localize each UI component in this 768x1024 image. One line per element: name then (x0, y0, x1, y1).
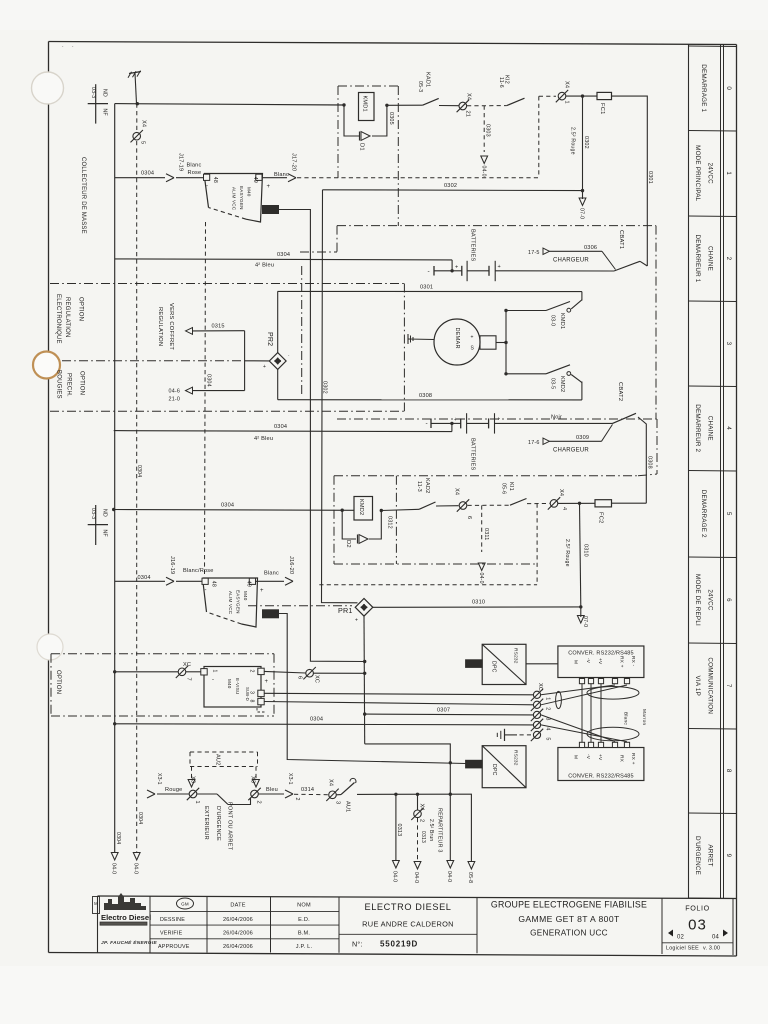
svg-text:NF: NF (102, 530, 108, 537)
svg-text:X3: X3 (250, 776, 256, 783)
svg-text:07-0: 07-0 (582, 616, 588, 627)
svg-text:26/04/2006: 26/04/2006 (223, 944, 253, 950)
svg-text:KAD1: KAD1 (425, 72, 431, 87)
svg-text:11-3: 11-3 (416, 481, 422, 492)
svg-text:CONVER. RS232/RS485: CONVER. RS232/RS485 (568, 774, 634, 780)
svg-text:D'URGENCE: D'URGENCE (215, 806, 221, 841)
wire to X3-1 (157, 793, 189, 795)
svg-text:2: 2 (725, 257, 732, 261)
relay coil KMD2 (354, 497, 373, 521)
arrow 04-0 dashed (133, 812, 144, 874)
svg-text:X4: X4 (328, 779, 334, 786)
wire dashed KI1 to X4-4 (527, 503, 550, 505)
contactor CBAT2 (613, 382, 653, 503)
svg-text:·: · (62, 44, 64, 50)
svg-text:ARRET: ARRET (707, 844, 714, 866)
pin 8 (258, 698, 264, 704)
svg-text:DESSINE: DESSINE (160, 917, 185, 923)
relay coil KMD1 (359, 93, 375, 121)
wire XC4 to RX+ lower (541, 725, 627, 742)
svg-text:03-3: 03-3 (90, 508, 96, 519)
wire 0302 vertical to PR1 (322, 190, 358, 603)
svg-text:Marron: Marron (641, 709, 647, 726)
svg-text:AU1: AU1 (345, 801, 351, 812)
converter DPC 1 (482, 644, 526, 684)
svg-text:24VCC: 24VCC (707, 163, 714, 185)
connector X4 pin 2 (411, 794, 424, 822)
cable stub EASYGEN2 (263, 610, 279, 618)
pin 48 (204, 174, 210, 180)
svg-text:-V: -V (585, 754, 591, 760)
earth ground comm (497, 729, 531, 741)
label VERS COFFRET REGULATION (157, 303, 174, 350)
wire masse bus 0304 vertical (114, 104, 116, 852)
svg-text:-: - (426, 420, 428, 427)
wire PR2 top to 0301 (277, 291, 279, 352)
svg-text:CHAINE: CHAINE (707, 416, 714, 441)
pin 49 (256, 174, 262, 180)
svg-text:MODE PRINCIPAL: MODE PRINCIPAL (694, 145, 701, 202)
svg-text:ELECTRONIQUE: ELECTRONIQUE (55, 294, 61, 344)
svg-text:ALIM VCC: ALIM VCC (228, 591, 233, 615)
pin 48 row2 (202, 578, 208, 584)
wire dashed row2 bottom (319, 584, 537, 586)
svg-text:21: 21 (465, 111, 471, 118)
svg-text:J16-19: J16-19 (169, 556, 175, 574)
svg-text:OPTION: OPTION (79, 371, 85, 395)
diode bridge PR1 (338, 599, 373, 624)
wire KAD1 to X4-21 (439, 105, 459, 107)
connector XC pins 1-5 (531, 683, 551, 741)
svg-text:KMD1: KMD1 (362, 96, 368, 112)
svg-text:D'URGENCE: D'URGENCE (694, 836, 701, 875)
connector X4 pin 1 (556, 81, 570, 104)
wire XC2 to RX- (541, 685, 627, 705)
AU2 dashed box (188, 752, 259, 787)
svg-text:6: 6 (297, 676, 303, 679)
svg-text:0310: 0310 (583, 544, 589, 557)
svg-text:0308: 0308 (647, 456, 653, 469)
chassis ground top (128, 71, 141, 104)
svg-text:DEMARRAGE 2: DEMARRAGE 2 (700, 490, 707, 538)
svg-text:0304: 0304 (138, 575, 151, 581)
wire KMD2 to KAD2 (381, 509, 419, 510)
svg-text:2.5² Brun: 2.5² Brun (428, 819, 434, 841)
svg-text:6: 6 (725, 598, 732, 602)
node DPC2 tap (449, 761, 452, 764)
svg-text:05-3: 05-3 (417, 81, 423, 92)
node 0302 (581, 189, 584, 192)
wire branch 05-8 (450, 794, 471, 861)
svg-text:N°:: N°: (352, 940, 363, 949)
svg-text:2: 2 (419, 819, 425, 822)
svg-text:FC2: FC2 (598, 512, 604, 524)
svg-text:0314: 0314 (301, 787, 314, 793)
connector XC pin 7 (113, 662, 192, 681)
svg-text:KMD2: KMD2 (358, 499, 364, 515)
cable stub DPC2 (466, 760, 483, 768)
switch KAD2 (416, 478, 436, 509)
svg-text:MODE DE REPLI: MODE DE REPLI (694, 574, 701, 626)
contact KMD2 (546, 365, 582, 400)
wire EASYGEN1 supply to DPC feed (279, 210, 365, 662)
arrow 07-0 row1 (578, 191, 586, 220)
pin 49 row2 (249, 578, 255, 584)
connector J16-20 (285, 556, 294, 585)
svg-text:0303: 0303 (485, 124, 491, 137)
svg-text:EXTERIEUR: EXTERIEUR (203, 806, 209, 840)
svg-text:GENERATION UCC: GENERATION UCC (530, 929, 608, 938)
svg-text:X4: X4 (419, 804, 425, 811)
svg-text:0304: 0304 (115, 832, 121, 844)
wire repartiteur top link (365, 744, 451, 860)
svg-text:·: · (288, 353, 290, 359)
node X4-2 tap (416, 793, 419, 796)
svg-text:04-0: 04-0 (446, 871, 452, 882)
svg-text:X3: X3 (190, 776, 196, 783)
svg-text:M40: M40 (227, 679, 232, 689)
svg-text:4: 4 (545, 727, 551, 730)
svg-text:03-0: 03-0 (550, 315, 556, 326)
svg-text:Noir: Noir (551, 415, 562, 421)
svg-text:ELECTRO DIESEL: ELECTRO DIESEL (364, 902, 451, 912)
svg-text:FC1: FC1 (599, 103, 605, 115)
node bus corner (136, 102, 139, 105)
KI1 dashed box (482, 504, 537, 585)
svg-text:0308: 0308 (419, 393, 432, 399)
ground at motor (408, 334, 421, 344)
cable stub DPC1 (466, 660, 483, 668)
svg-text:0315: 0315 (212, 324, 225, 330)
svg-text:APPROUVE: APPROUVE (158, 944, 190, 950)
connector X3-1 input (147, 773, 182, 798)
svg-text:E.D.: E.D. (298, 917, 310, 923)
svg-text:1: 1 (194, 801, 200, 804)
svg-text:BATTERIES: BATTERIES (470, 438, 476, 471)
svg-text:X3-1: X3-1 (287, 773, 293, 785)
svg-text:-: - (428, 268, 430, 275)
wire 0304 to XC4 (113, 717, 533, 726)
svg-text:24VCC: 24VCC (707, 589, 714, 611)
contact KMD1 (546, 292, 582, 330)
diode bridge PR2 (263, 332, 290, 370)
zone numbers 0-9 (725, 86, 732, 857)
svg-text:1: 1 (564, 101, 570, 104)
svg-text:0304: 0304 (141, 171, 154, 177)
svg-text:03-5: 03-5 (550, 378, 556, 389)
svg-text:26/04/2006: 26/04/2006 (223, 931, 253, 937)
svg-text:+V: +V (597, 658, 603, 665)
svg-text:0302: 0302 (583, 136, 589, 149)
node 0313 tap (394, 793, 397, 796)
svg-text:04-0: 04-0 (392, 871, 398, 882)
svg-text:17-5: 17-5 (528, 250, 540, 256)
wire pin49 to J17-20 (262, 177, 287, 179)
svg-text:0304: 0304 (206, 374, 212, 387)
svg-text:B.M.: B.M. (298, 931, 311, 937)
svg-text:7: 7 (725, 684, 732, 688)
pin 2 (258, 668, 264, 674)
svg-text:5: 5 (725, 512, 732, 516)
svg-text:Rose: Rose (188, 170, 202, 176)
symbol ND/NF lower (88, 505, 108, 545)
svg-text:03: 03 (688, 917, 707, 934)
svg-text:0304: 0304 (310, 717, 323, 723)
svg-text:RX -: RX - (630, 656, 636, 667)
punch hole top (32, 72, 64, 104)
wire X3-2 out (259, 793, 285, 795)
svg-text:04: 04 (712, 935, 720, 941)
svg-text:6: 6 (466, 516, 472, 519)
svg-text:4² Bleu: 4² Bleu (254, 436, 273, 442)
svg-text:+: + (355, 618, 358, 624)
svg-text:BOUGIES: BOUGIES (56, 370, 62, 399)
svg-text:2: 2 (256, 801, 262, 804)
svg-text:8: 8 (725, 769, 732, 773)
svg-text:·: · (72, 44, 74, 50)
svg-text:4: 4 (725, 426, 732, 430)
chaine demarreur 2 dash-dot boundary (334, 419, 657, 564)
punch hole lower (37, 634, 63, 660)
svg-text:J17-20: J17-20 (291, 153, 297, 171)
svg-text:+: + (267, 184, 271, 190)
svg-text:-: - (206, 184, 208, 190)
svg-text:49: 49 (246, 581, 252, 587)
arrow 04-0 row2 (478, 563, 485, 584)
svg-text:J17-19: J17-19 (178, 153, 184, 171)
wire X4-4 to FC2 (558, 502, 595, 504)
svg-text:0304: 0304 (137, 812, 143, 824)
pin 3 (258, 690, 264, 696)
svg-text:VIA 1P: VIA 1P (694, 676, 701, 696)
svg-text:0304: 0304 (136, 465, 142, 477)
svg-text:+: + (454, 417, 457, 423)
svg-text:4² Bleu: 4² Bleu (255, 263, 274, 269)
wire pin8 to XC2 (264, 702, 533, 705)
svg-text:3: 3 (335, 801, 341, 804)
wire top feed 0304 horizontal (115, 104, 344, 105)
svg-text:1: 1 (725, 171, 732, 175)
svg-text:RS232: RS232 (513, 750, 519, 766)
wire PR2 bottom to 0308 (277, 369, 279, 399)
svg-text:+: + (263, 364, 266, 370)
wire dashed X4-21 to KI2 (467, 105, 507, 107)
converter DPC 2 (482, 746, 526, 788)
connector J17-20 (288, 153, 297, 182)
svg-text:REGULATION: REGULATION (64, 297, 70, 338)
svg-text:0304: 0304 (277, 252, 290, 258)
svg-text:REPARTITEUR 3: REPARTITEUR 3 (437, 808, 443, 853)
battery bank 2 (426, 413, 613, 470)
svg-text:0302: 0302 (322, 381, 328, 394)
svg-text:KAD2: KAD2 (424, 478, 430, 493)
svg-text:-V: -V (585, 658, 591, 664)
svg-text:3: 3 (545, 717, 551, 720)
node AU line tap (449, 793, 452, 796)
svg-text:COLLECTEUR DE MASSE: COLLECTEUR DE MASSE (80, 157, 86, 234)
arrow 04-0 row1 (480, 156, 487, 177)
svg-text:Blanc: Blanc (264, 571, 279, 577)
svg-text:0313: 0313 (420, 831, 426, 843)
charger input 17-5 (528, 245, 616, 270)
connector XC pin 6 (297, 667, 320, 683)
twisted pair lower (587, 727, 639, 741)
module M40 E-VISU (204, 667, 261, 708)
svg-text:ND: ND (102, 509, 108, 517)
chaine demarreur 1 dash-dot boundary (300, 226, 657, 419)
wire KAD2 to X4-6 (436, 505, 459, 507)
wire dashed X4-6 to KI1 (468, 504, 511, 506)
svg-text:+: + (260, 588, 264, 594)
svg-text:XC: XC (314, 675, 320, 683)
svg-text:DEMARREUR 2: DEMARREUR 2 (694, 404, 701, 452)
svg-text:DPC: DPC (491, 764, 497, 776)
svg-text:X3-1: X3-1 (156, 773, 162, 785)
switch KI2 (498, 75, 525, 106)
svg-text:RX: RX (619, 755, 625, 763)
wire pin3 to XC1 (264, 693, 533, 695)
connector J17-19 (166, 153, 184, 182)
svg-text:2: 2 (249, 670, 255, 673)
wire 0304 to J16-19 (115, 575, 165, 581)
svg-text:GROUPE ELECTROGENE FIABILISE: GROUPE ELECTROGENE FIABILISE (491, 900, 647, 910)
svg-text:0304: 0304 (274, 424, 287, 430)
svg-text:03-3: 03-3 (90, 87, 96, 98)
svg-text:CBAT1: CBAT1 (618, 230, 624, 249)
svg-text:05-8: 05-8 (467, 872, 473, 883)
svg-text:-: - (205, 588, 207, 594)
svg-text:v. 3.00: v. 3.00 (703, 946, 720, 952)
svg-text:Blanc: Blanc (274, 172, 289, 178)
svg-text:X4: X4 (558, 489, 564, 496)
svg-text:VERS COFFRET: VERS COFFRET (168, 303, 174, 350)
svg-text:M: M (94, 901, 98, 906)
svg-text:7: 7 (186, 678, 192, 681)
wire motor to contacts (504, 309, 546, 376)
arrow 04-0 X4-2 (413, 862, 421, 884)
relay KMD1 dash-dot box (338, 86, 398, 226)
svg-text:X4: X4 (454, 488, 460, 495)
svg-text:PR1: PR1 (338, 606, 353, 615)
wire dashed X4-2 drop 0313 (418, 818, 427, 861)
svg-text:0307: 0307 (437, 708, 450, 714)
wire dashed 0304 row1 continuation (297, 177, 539, 179)
wire PR1 bottom drop (363, 616, 366, 744)
svg-text:04-0: 04-0 (111, 863, 117, 874)
svg-text:Bleu: Bleu (266, 787, 278, 793)
renvoi 0315 (186, 324, 245, 335)
svg-text:+: + (455, 265, 458, 271)
svg-text:KMD2: KMD2 (559, 376, 565, 392)
svg-text:26/04/2006: 26/04/2006 (223, 917, 253, 923)
switch AU2 (197, 794, 251, 805)
svg-text:CHARGEUR: CHARGEUR (553, 258, 589, 264)
connector X4 pin 5 (131, 104, 147, 145)
svg-text:KMD1: KMD1 (559, 313, 565, 329)
zone column frame (689, 44, 737, 898)
dash-dot boundary x=302 (301, 266, 303, 394)
diode D2 (342, 510, 381, 548)
wire KMD2 coil feed from bus (112, 503, 354, 512)
svg-text:CHAINE: CHAINE (707, 246, 714, 271)
svg-text:0301: 0301 (420, 284, 433, 290)
svg-text:M40: M40 (246, 187, 251, 197)
svg-text:3: 3 (249, 691, 255, 694)
svg-text:0304: 0304 (221, 503, 234, 509)
switch KAD1 (417, 72, 439, 105)
connector X3-1 output (285, 773, 300, 801)
svg-text:2: 2 (294, 798, 300, 801)
svg-text:X4: X4 (141, 120, 147, 127)
svg-text:VERIFIE: VERIFIE (160, 931, 183, 937)
pin 1 (201, 669, 207, 675)
connector X4 pin 21 (457, 93, 472, 117)
svg-text:NF: NF (102, 109, 108, 116)
margin label OPTION REGULATION ELECTRONIQUE (55, 294, 84, 344)
svg-text:J16-20: J16-20 (288, 556, 294, 574)
svg-text:X4: X4 (564, 81, 570, 88)
svg-text:04-0: 04-0 (413, 872, 419, 883)
connector X3 pin 2 (248, 776, 261, 804)
svg-text:04-0: 04-0 (480, 166, 486, 177)
wire XC7 to E-VISU pin1 (186, 671, 201, 673)
wire EASYGEN2 supply to DPC2 (279, 614, 466, 764)
svg-text:DATE: DATE (230, 903, 245, 909)
svg-text:DEMAR: DEMAR (454, 328, 460, 349)
svg-text:07-0: 07-0 (578, 208, 584, 219)
svg-text:XC: XC (183, 662, 191, 668)
svg-text:RX +: RX + (630, 753, 636, 765)
svg-text:COMMUNICATION: COMMUNICATION (707, 657, 714, 714)
svg-text:Logiciel SEE: Logiciel SEE (666, 946, 699, 952)
svg-text:04-0: 04-0 (478, 573, 484, 584)
section divider dash-dot row6 (248, 605, 352, 607)
option communication dash-dot box (51, 654, 274, 716)
svg-text:9: 9 (725, 854, 732, 858)
svg-text:0310: 0310 (472, 600, 485, 606)
connector X4 pin 4 (548, 489, 567, 510)
svg-text:E-VISU: E-VISU (235, 678, 240, 695)
svg-text:S: S (471, 346, 475, 352)
wire AU1 out (357, 793, 450, 795)
svg-text:Rouge: Rouge (165, 787, 182, 793)
svg-text:OPTION: OPTION (55, 670, 61, 694)
punch hole middle (rust ring) (33, 352, 60, 379)
wire dashed 0314 (294, 793, 329, 795)
battery bank 1 (428, 229, 615, 281)
svg-text:GAMME GET 8T A 800T: GAMME GET 8T A 800T (518, 914, 620, 924)
svg-text:DPC: DPC (491, 661, 497, 673)
dashed sub-d bracket (257, 708, 266, 712)
svg-text:RS232: RS232 (513, 648, 519, 664)
option regulation dash-dot box (50, 284, 404, 412)
contactor CBAT1 (614, 230, 647, 271)
converter 2 pins (579, 742, 629, 747)
wire X4-1 to FC1 (566, 95, 597, 97)
cable tie (556, 691, 562, 708)
wire DPC1 to converter 1 (526, 663, 558, 665)
wire KMD1 to KAD1 (387, 104, 423, 106)
svg-text:+: + (471, 335, 474, 341)
node D2 taps (341, 509, 344, 512)
node D1 taps (342, 103, 345, 106)
label PONT OU ARRET D URGENCE EXTERIEUR (203, 802, 233, 851)
wire 0307 to XC3 (363, 708, 533, 716)
svg-text:0302: 0302 (444, 183, 457, 189)
charger input 17-6 (528, 424, 613, 453)
svg-text:5: 5 (140, 141, 146, 144)
svg-text:0: 0 (725, 86, 732, 90)
